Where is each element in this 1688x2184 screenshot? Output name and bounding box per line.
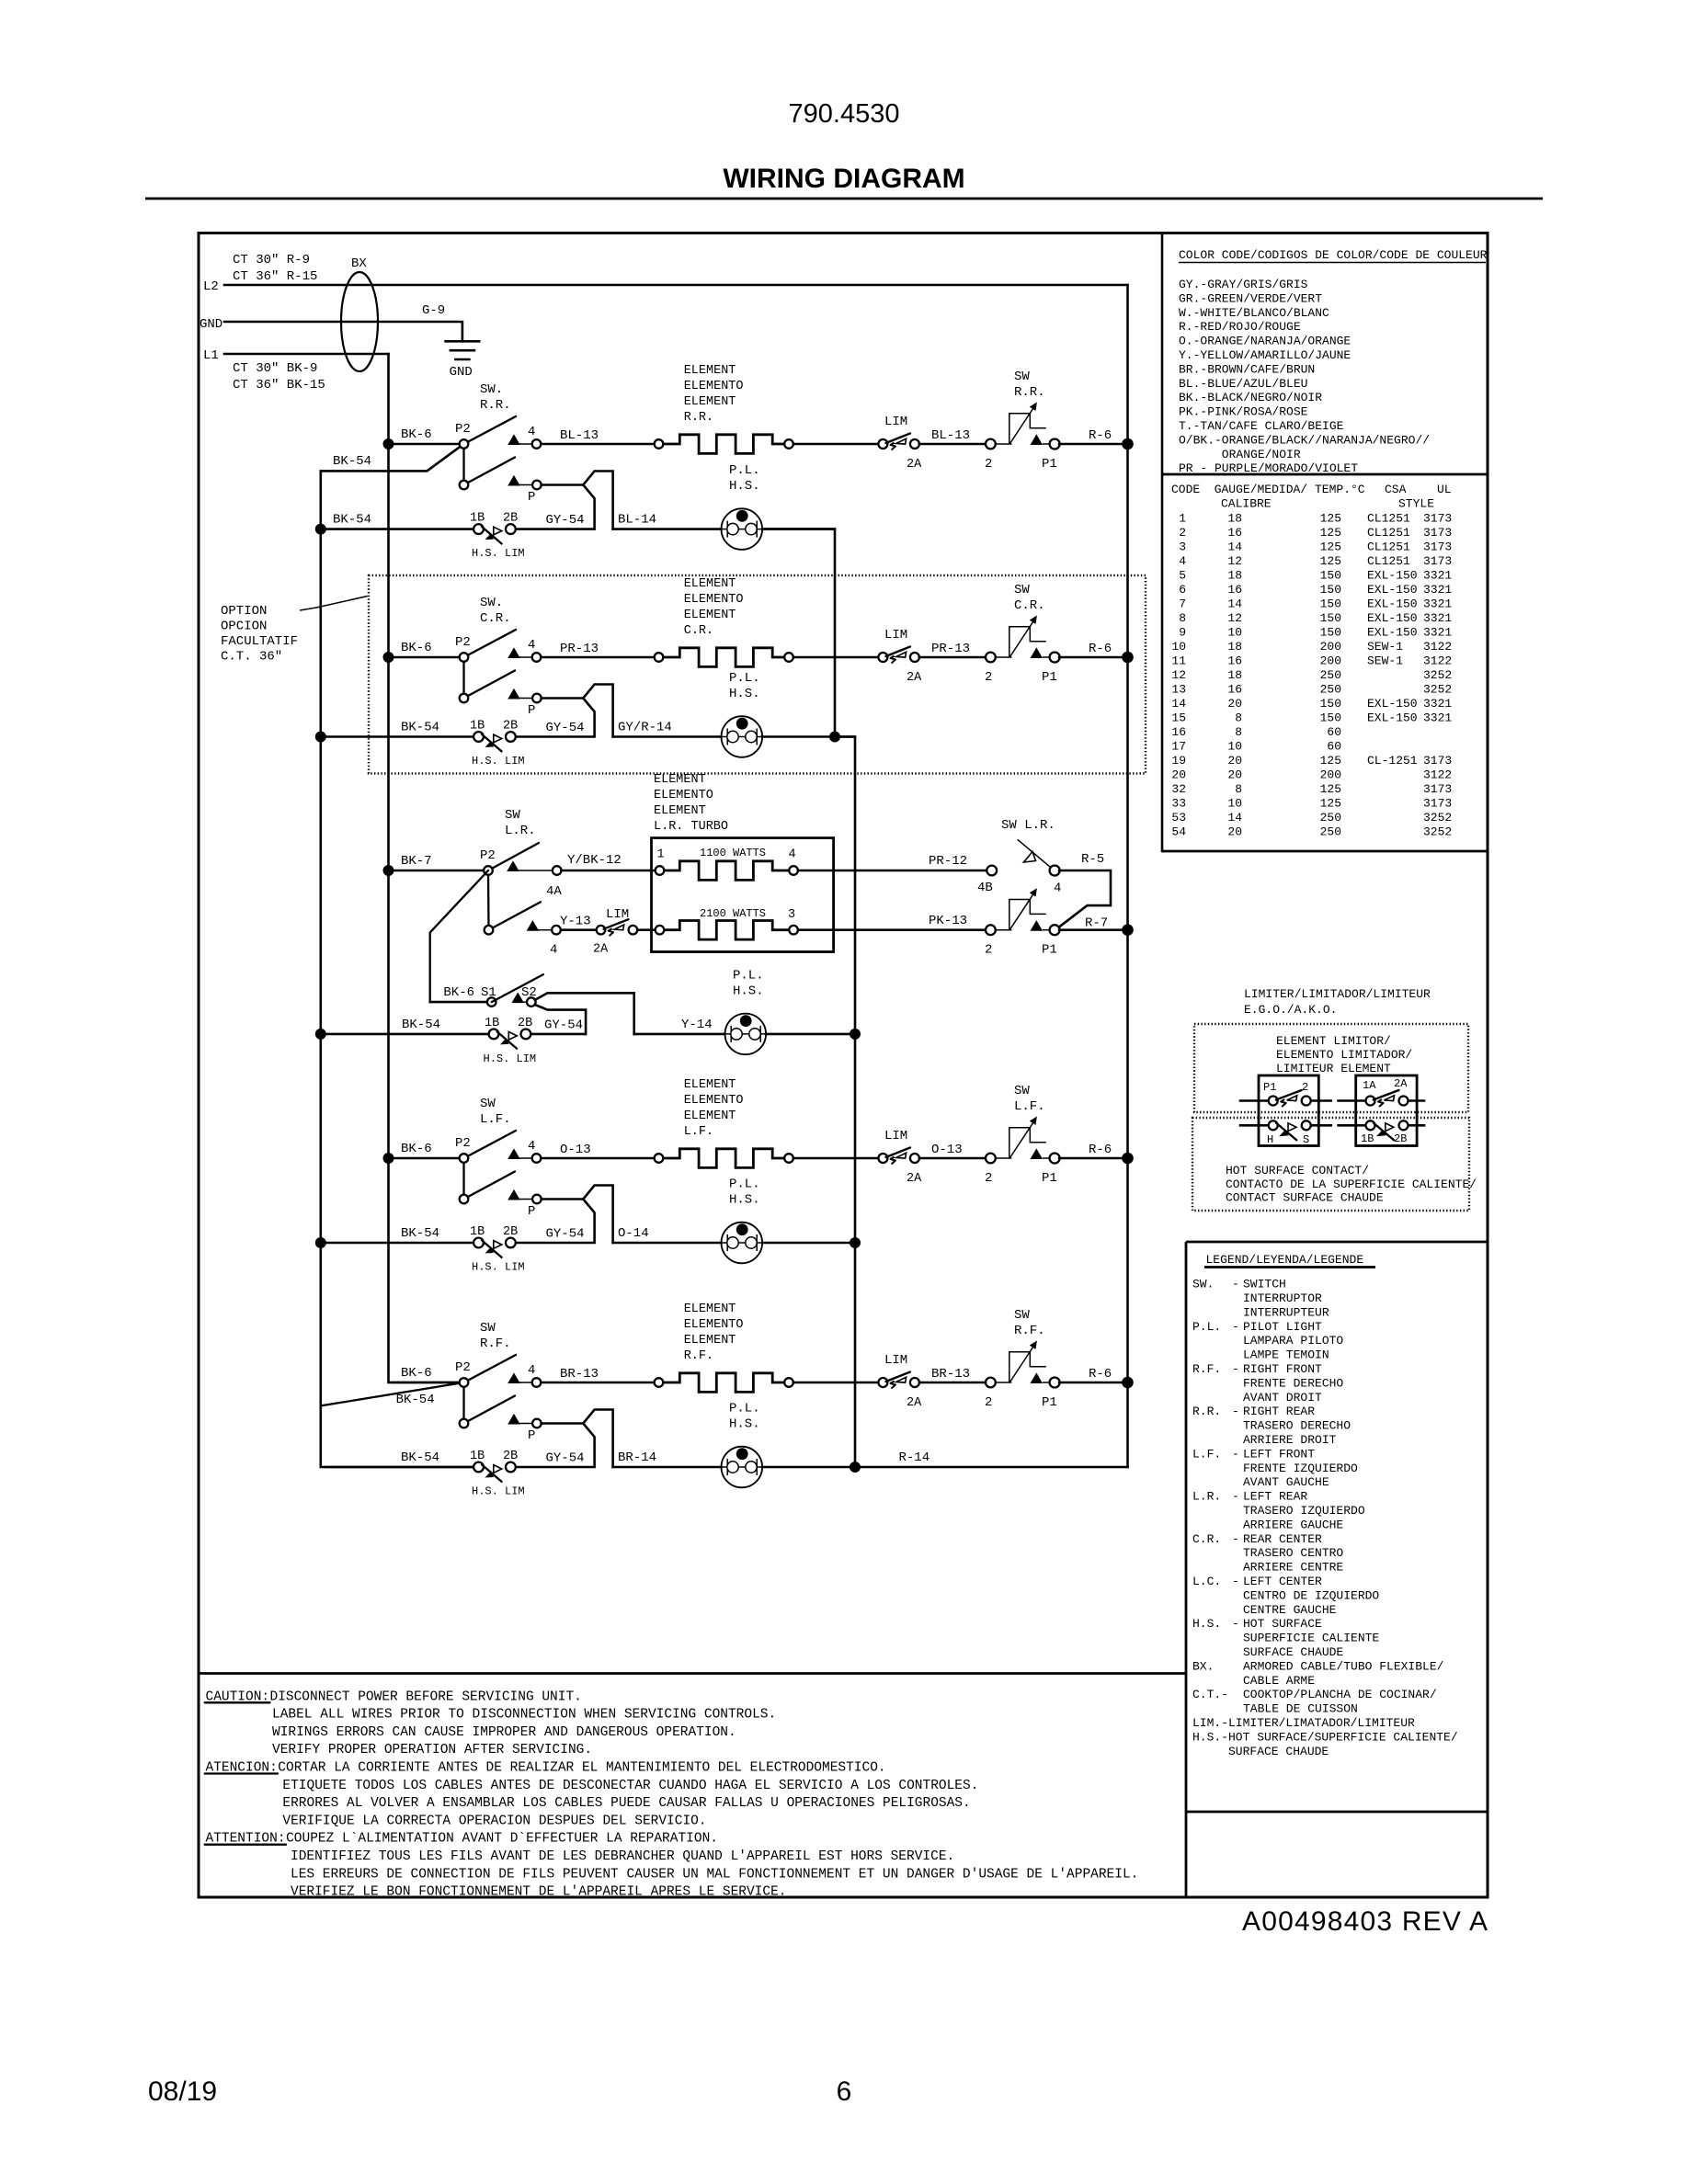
svg-text:2B: 2B bbox=[518, 1017, 532, 1030]
svg-text:CABLE ARME: CABLE ARME bbox=[1243, 1674, 1315, 1688]
svg-text:H.S. LIM: H.S. LIM bbox=[472, 755, 525, 768]
svg-text:20: 20 bbox=[1227, 825, 1242, 839]
wire pilot return L.R. bbox=[766, 1033, 855, 1036]
svg-text:125: 125 bbox=[1320, 540, 1341, 554]
svg-text:P2: P2 bbox=[455, 635, 471, 650]
svg-text:14: 14 bbox=[1171, 697, 1186, 711]
node BK-54 junction R.R. bbox=[315, 524, 326, 535]
svg-text:150: 150 bbox=[1320, 697, 1341, 711]
svg-text:3122: 3122 bbox=[1423, 654, 1452, 668]
wire BL-13 bbox=[919, 443, 987, 446]
svg-text:Y.-YELLOW/AMARILLO/JAUNE: Y.-YELLOW/AMARILLO/JAUNE bbox=[1179, 348, 1351, 362]
svg-text:4: 4 bbox=[528, 638, 535, 653]
svg-text:ARMORED CABLE/TUBO FLEXIBLE/: ARMORED CABLE/TUBO FLEXIBLE/ bbox=[1243, 1659, 1444, 1673]
svg-text:17: 17 bbox=[1171, 740, 1186, 754]
svg-text:H.S.: H.S. bbox=[1192, 1617, 1221, 1631]
pilot light P.L. H.S. C.R. bbox=[722, 716, 763, 757]
svg-text:O/BK.-ORANGE/BLACK//NARANJA/NE: O/BK.-ORANGE/BLACK//NARANJA/NEGRO// bbox=[1179, 433, 1430, 447]
svg-text:CALIBRE: CALIBRE bbox=[1221, 497, 1272, 511]
node pilot return L.R. bbox=[850, 1029, 861, 1040]
svg-text:PR - PURPLE/MORADO/VIOLET: PR - PURPLE/MORADO/VIOLET bbox=[1179, 461, 1358, 475]
svg-text:LEGEND/LEYENDA/LEGENDE: LEGEND/LEYENDA/LEGENDE bbox=[1206, 1253, 1364, 1267]
svg-text:ELEMENTO: ELEMENTO bbox=[684, 1094, 744, 1108]
svg-text:2100 WATTS: 2100 WATTS bbox=[700, 907, 766, 920]
svg-text:2: 2 bbox=[1179, 526, 1186, 540]
limiter LIM L.R. bbox=[597, 926, 606, 935]
svg-text:PK-13: PK-13 bbox=[929, 914, 967, 928]
svg-text:ELEMENT: ELEMENT bbox=[654, 773, 706, 787]
svg-text:ARRIERE CENTRE: ARRIERE CENTRE bbox=[1243, 1561, 1343, 1575]
svg-text:CL1251: CL1251 bbox=[1367, 526, 1410, 540]
svg-text:3173: 3173 bbox=[1423, 754, 1452, 768]
svg-text:GND: GND bbox=[450, 365, 473, 380]
svg-text:SWITCH: SWITCH bbox=[1243, 1278, 1286, 1291]
svg-text:R-6: R-6 bbox=[1089, 428, 1112, 443]
svg-text:P2: P2 bbox=[455, 1136, 471, 1151]
svg-text:3321: 3321 bbox=[1423, 697, 1452, 711]
svg-text:R-14: R-14 bbox=[899, 1450, 930, 1465]
terminal 2 of SW C.R. bbox=[986, 653, 996, 663]
terminal P1 of SW L.F. bbox=[1031, 1148, 1044, 1159]
svg-text:ELEMENT: ELEMENT bbox=[684, 609, 736, 622]
node BK-6 junction R.R. bbox=[383, 438, 394, 449]
svg-text:EXL-150: EXL-150 bbox=[1367, 611, 1418, 625]
svg-text:SW.: SW. bbox=[1192, 1278, 1214, 1291]
svg-text:8: 8 bbox=[1235, 711, 1242, 725]
svg-text:LIM.-LIMITER/LIMATADOR/LIMITEU: LIM.-LIMITER/LIMATADOR/LIMITEUR bbox=[1192, 1716, 1415, 1730]
svg-text:LIM: LIM bbox=[884, 1129, 907, 1143]
svg-text:TRASERO CENTRO: TRASERO CENTRO bbox=[1243, 1546, 1343, 1560]
svg-text:P1: P1 bbox=[1042, 1171, 1057, 1186]
svg-text:R.R.: R.R. bbox=[480, 398, 511, 413]
node pilot return R.F. bbox=[850, 1462, 861, 1473]
svg-text:CT 30" BK-9: CT 30" BK-9 bbox=[233, 361, 317, 376]
terminal P1 of SW L.R. bbox=[1031, 920, 1044, 931]
wire BK-54 to row R.F. switch bbox=[321, 1382, 464, 1405]
svg-text:ARRIERE DROIT: ARRIERE DROIT bbox=[1243, 1433, 1337, 1447]
svg-text:RIGHT FRONT: RIGHT FRONT bbox=[1243, 1362, 1322, 1376]
svg-text:2: 2 bbox=[985, 1171, 992, 1186]
wire pilot light return bbox=[762, 1466, 1127, 1469]
dashed box hot surface contact bbox=[1192, 1118, 1469, 1211]
svg-text:HOT SURFACE CONTACT/: HOT SURFACE CONTACT/ bbox=[1226, 1164, 1369, 1177]
terminal 4A of SW L.R. bbox=[507, 860, 519, 871]
svg-text:4: 4 bbox=[528, 1363, 535, 1378]
wire GND G-9 bbox=[224, 322, 462, 341]
svg-text:10: 10 bbox=[1227, 740, 1242, 754]
element R.R. (resistor) bbox=[655, 439, 664, 449]
svg-text:REAR CENTER: REAR CENTER bbox=[1243, 1532, 1322, 1546]
svg-text:C.R.: C.R. bbox=[480, 611, 511, 626]
wire O-13 bbox=[919, 1157, 987, 1160]
svg-text:BL.-BLUE/AZUL/BLEU: BL.-BLUE/AZUL/BLEU bbox=[1179, 377, 1307, 391]
wire pilot light return bbox=[762, 735, 855, 738]
svg-text:3321: 3321 bbox=[1423, 569, 1452, 583]
armored cable BX (ellipse) bbox=[341, 272, 378, 371]
wire L1 bbox=[224, 353, 389, 356]
wire element R.F. to LIM bbox=[793, 1382, 879, 1384]
svg-text:SURFACE CHAUDE: SURFACE CHAUDE bbox=[1243, 1645, 1343, 1659]
svg-text:CT 36" BK-15: CT 36" BK-15 bbox=[233, 378, 325, 392]
wire PK-13 bbox=[798, 928, 987, 931]
wire R-6 bbox=[1059, 1157, 1122, 1160]
terminal P1 of SW R.F. bbox=[1031, 1372, 1044, 1383]
svg-text:ERRORES AL VOLVER A ENSAMBLAR: ERRORES AL VOLVER A ENSAMBLAR LOS CABLES… bbox=[282, 1796, 970, 1811]
svg-text:GY-54: GY-54 bbox=[546, 1227, 585, 1242]
svg-text:BL-13: BL-13 bbox=[931, 428, 970, 443]
svg-text:GR.-GREEN/VERDE/VERT: GR.-GREEN/VERDE/VERT bbox=[1179, 291, 1322, 305]
svg-text:18: 18 bbox=[1227, 569, 1242, 583]
svg-text:18: 18 bbox=[1227, 640, 1242, 654]
svg-text:3: 3 bbox=[788, 908, 795, 922]
svg-text:DISCONNECT POWER BEFORE SERVIC: DISCONNECT POWER BEFORE SERVICING UNIT. bbox=[270, 1689, 582, 1704]
svg-text:250: 250 bbox=[1320, 683, 1341, 697]
svg-text:8: 8 bbox=[1179, 611, 1186, 625]
limiter LIM R.R. bbox=[878, 439, 887, 449]
svg-text:4: 4 bbox=[528, 1139, 535, 1154]
svg-text:LIM: LIM bbox=[884, 1353, 907, 1368]
wire BK-54 bbox=[325, 735, 474, 738]
svg-text:H: H bbox=[1267, 1133, 1273, 1146]
wire element L.F. to LIM bbox=[793, 1157, 879, 1160]
node BK-6 junction L.F. bbox=[383, 1153, 394, 1164]
svg-text:250: 250 bbox=[1320, 825, 1341, 839]
svg-text:10: 10 bbox=[1171, 640, 1186, 654]
svg-text:250: 250 bbox=[1320, 811, 1341, 825]
svg-text:P.L.: P.L. bbox=[729, 671, 760, 686]
svg-text:RIGHT REAR: RIGHT REAR bbox=[1243, 1405, 1315, 1418]
wire element R.R. to LIM bbox=[793, 443, 879, 446]
terminal 2 of SW R.F. bbox=[986, 1378, 996, 1388]
svg-text:LES ERREURS DE CONNECTION DE F: LES ERREURS DE CONNECTION DE FILS PEUVEN… bbox=[291, 1867, 1138, 1882]
svg-text:PR-13: PR-13 bbox=[560, 642, 599, 656]
wire BK-54 bbox=[325, 528, 474, 530]
svg-text:R.R.: R.R. bbox=[1192, 1405, 1221, 1418]
svg-text:BL-14: BL-14 bbox=[618, 513, 656, 528]
svg-text:CENTRO DE IZQUIERDO: CENTRO DE IZQUIERDO bbox=[1243, 1588, 1379, 1602]
svg-text:BR.-BROWN/CAFE/BRUN: BR.-BROWN/CAFE/BRUN bbox=[1179, 362, 1315, 376]
svg-text:200: 200 bbox=[1320, 654, 1341, 668]
svg-text:SW: SW bbox=[480, 1321, 496, 1336]
svg-text:1B: 1B bbox=[470, 1450, 485, 1463]
svg-text:-: - bbox=[1232, 1490, 1239, 1504]
svg-text:SW: SW bbox=[1014, 1084, 1030, 1098]
wire BK-54 row L.R. bbox=[325, 1033, 489, 1036]
svg-text:R-7: R-7 bbox=[1085, 916, 1108, 931]
svg-text:ELEMENTO: ELEMENTO bbox=[684, 593, 744, 607]
thermal switch H.S. LIM R.R. (1B/2B) bbox=[473, 524, 484, 534]
svg-text:2A: 2A bbox=[907, 671, 922, 685]
svg-text:CONTACTO DE LA SUPERFICIE CALI: CONTACTO DE LA SUPERFICIE CALIENTE/ bbox=[1226, 1177, 1477, 1191]
svg-text:BK-6: BK-6 bbox=[401, 1142, 432, 1156]
element box L.R. turbo bbox=[652, 838, 834, 952]
dashed box element limitor bbox=[1194, 1024, 1468, 1112]
svg-text:3173: 3173 bbox=[1423, 526, 1452, 540]
svg-text:ELEMENTO: ELEMENTO bbox=[684, 1318, 744, 1332]
svg-text:4: 4 bbox=[550, 943, 557, 958]
svg-text:8: 8 bbox=[1235, 725, 1242, 739]
wire PR-12 bbox=[798, 870, 987, 872]
svg-text:C.R.: C.R. bbox=[1192, 1532, 1221, 1546]
ground symbol GND bbox=[446, 340, 480, 343]
svg-text:CONTACT SURFACE CHAUDE: CONTACT SURFACE CHAUDE bbox=[1226, 1191, 1384, 1205]
svg-text:150: 150 bbox=[1320, 569, 1341, 583]
node BK-54 junction L.R. bbox=[315, 1029, 326, 1040]
svg-text:EXL-150: EXL-150 bbox=[1367, 597, 1418, 611]
svg-text:BK-6: BK-6 bbox=[401, 641, 432, 655]
svg-text:P1: P1 bbox=[1042, 943, 1057, 958]
svg-text:2B: 2B bbox=[503, 512, 518, 526]
svg-text:L.F.: L.F. bbox=[684, 1125, 713, 1139]
svg-text:150: 150 bbox=[1320, 611, 1341, 625]
svg-text:R.F.: R.F. bbox=[1014, 1324, 1045, 1338]
svg-text:UL: UL bbox=[1437, 483, 1452, 496]
svg-text:10: 10 bbox=[1227, 626, 1242, 640]
svg-text:3173: 3173 bbox=[1423, 512, 1452, 526]
svg-text:BK-54: BK-54 bbox=[333, 454, 371, 469]
wire pilot light return bbox=[762, 1242, 855, 1245]
pilot light P.L. H.S. L.R. bbox=[725, 1014, 767, 1055]
svg-text:BK-54: BK-54 bbox=[396, 1393, 435, 1407]
node R-6 junction R.R. bbox=[1122, 438, 1134, 450]
svg-text:LEFT CENTER: LEFT CENTER bbox=[1243, 1575, 1322, 1588]
svg-text:SEW-1: SEW-1 bbox=[1367, 654, 1403, 668]
limiter LIM L.F. bbox=[878, 1154, 887, 1163]
svg-text:H.S. LIM: H.S. LIM bbox=[472, 547, 525, 560]
limiter contacts H/S bbox=[1240, 1124, 1269, 1127]
svg-text:CODE: CODE bbox=[1171, 483, 1200, 496]
svg-text:60: 60 bbox=[1327, 725, 1341, 739]
svg-text:STYLE: STYLE bbox=[1398, 497, 1434, 511]
svg-text:BR-14: BR-14 bbox=[618, 1450, 656, 1465]
svg-text:ELEMENT: ELEMENT bbox=[684, 364, 736, 378]
svg-text:GY-54: GY-54 bbox=[546, 513, 585, 528]
svg-text:ORANGE/NOIR: ORANGE/NOIR bbox=[1179, 448, 1301, 461]
svg-text:20: 20 bbox=[1171, 768, 1186, 782]
svg-text:O-13: O-13 bbox=[931, 1143, 963, 1157]
svg-text:BK-54: BK-54 bbox=[401, 721, 439, 735]
svg-text:20: 20 bbox=[1227, 768, 1242, 782]
terminal P1 of SW C.R. bbox=[1031, 647, 1044, 658]
svg-text:5: 5 bbox=[1179, 569, 1186, 583]
svg-text:20: 20 bbox=[1227, 697, 1242, 711]
wire BK-6 row L.F. bbox=[393, 1157, 460, 1160]
svg-text:125: 125 bbox=[1320, 754, 1341, 768]
svg-text:LIMITEUR ELEMENT: LIMITEUR ELEMENT bbox=[1276, 1062, 1391, 1075]
svg-text:W.-WHITE/BLANCO/BLANC: W.-WHITE/BLANCO/BLANC bbox=[1179, 306, 1329, 320]
divider gauge table bottom bbox=[1162, 850, 1488, 853]
svg-text:BK-54: BK-54 bbox=[333, 513, 371, 528]
wire Y/BK-12 bbox=[562, 870, 656, 872]
svg-text:ELEMENT: ELEMENT bbox=[684, 1302, 736, 1316]
svg-text:P2: P2 bbox=[455, 422, 471, 437]
svg-text:150: 150 bbox=[1320, 597, 1341, 611]
svg-text:O-14: O-14 bbox=[618, 1226, 649, 1241]
svg-text:53: 53 bbox=[1171, 811, 1186, 825]
svg-text:CT 30" R-9: CT 30" R-9 bbox=[233, 253, 310, 267]
svg-text:ETIQUETE TODOS LOS CABLES ANTE: ETIQUETE TODOS LOS CABLES ANTES DE DESCO… bbox=[282, 1779, 978, 1793]
node BK-7 junction L.R. bbox=[383, 865, 394, 876]
limiter contact box right bbox=[1356, 1075, 1417, 1146]
svg-text:SW: SW bbox=[1014, 370, 1030, 384]
node R-6 junction R.F. bbox=[1122, 1377, 1134, 1389]
svg-text:-: - bbox=[1232, 1532, 1239, 1546]
svg-text:COUPEZ L`ALIMENTATION AVANT D`: COUPEZ L`ALIMENTATION AVANT D`EFFECTUER … bbox=[286, 1832, 718, 1847]
svg-text:08/19: 08/19 bbox=[148, 2076, 217, 2107]
thermal switch H.S. LIM R.F. (1B/2B) bbox=[473, 1462, 484, 1473]
node pilot return L.F. bbox=[850, 1237, 861, 1248]
svg-text:3321: 3321 bbox=[1423, 611, 1452, 625]
svg-text:ELEMENT: ELEMENT bbox=[684, 1109, 736, 1123]
svg-text:1A: 1A bbox=[1363, 1079, 1376, 1092]
svg-text:4: 4 bbox=[1054, 882, 1061, 896]
svg-text:P.L.: P.L. bbox=[729, 1402, 760, 1416]
thermal switch H.S. LIM C.R. (1B/2B) bbox=[473, 732, 484, 742]
svg-text:4B: 4B bbox=[977, 881, 993, 895]
limiter contacts 1B/2B bbox=[1339, 1124, 1366, 1127]
node BK-54 junction L.F. bbox=[315, 1237, 326, 1248]
svg-text:3252: 3252 bbox=[1423, 811, 1452, 825]
svg-text:R.R.: R.R. bbox=[684, 411, 713, 425]
wire BK-6 row R.F. bbox=[393, 1382, 460, 1384]
svg-text:3122: 3122 bbox=[1423, 640, 1452, 654]
svg-text:4: 4 bbox=[528, 425, 535, 439]
svg-text:3173: 3173 bbox=[1423, 540, 1452, 554]
wire Y-14 bbox=[634, 1033, 725, 1036]
svg-text:L.R.: L.R. bbox=[505, 824, 536, 838]
svg-text:13: 13 bbox=[1171, 683, 1186, 697]
terminal 4 of SW R.R. bbox=[508, 434, 520, 445]
svg-text:1B: 1B bbox=[485, 1017, 499, 1030]
svg-text:EXL-150: EXL-150 bbox=[1367, 697, 1418, 711]
svg-text:54: 54 bbox=[1171, 825, 1186, 839]
svg-text:GND: GND bbox=[200, 317, 222, 332]
limiter contacts P1/2 bbox=[1240, 1099, 1269, 1102]
svg-text:12: 12 bbox=[1227, 611, 1242, 625]
svg-text:LIMITER/LIMITADOR/LIMITEUR: LIMITER/LIMITADOR/LIMITEUR bbox=[1244, 987, 1431, 1001]
svg-text:INTERRUPTOR: INTERRUPTOR bbox=[1243, 1291, 1322, 1305]
svg-text:BK-54: BK-54 bbox=[401, 1226, 439, 1241]
terminal 2 of SW L.R. (lower) bbox=[986, 925, 996, 935]
svg-text:TEMP.°C: TEMP.°C bbox=[1315, 483, 1365, 496]
svg-text:CORTAR LA CORRIENTE ANTES DE R: CORTAR LA CORRIENTE ANTES DE REALIZAR EL… bbox=[278, 1761, 885, 1776]
svg-text:FRENTE DERECHO: FRENTE DERECHO bbox=[1243, 1376, 1343, 1390]
svg-text:SUPERFICIE CALIENTE: SUPERFICIE CALIENTE bbox=[1243, 1632, 1379, 1645]
svg-text:-: - bbox=[1232, 1447, 1239, 1461]
svg-text:H.S.: H.S. bbox=[729, 1193, 760, 1208]
wire PR-13 bbox=[919, 656, 987, 659]
pilot light P.L. H.S. R.F. bbox=[722, 1447, 763, 1488]
svg-text:T.-TAN/CAFE CLARO/BEIGE: T.-TAN/CAFE CLARO/BEIGE bbox=[1179, 419, 1344, 433]
svg-text:1100 WATTS: 1100 WATTS bbox=[700, 847, 766, 859]
svg-text:Y-13: Y-13 bbox=[560, 915, 591, 929]
svg-text:BR-13: BR-13 bbox=[560, 1367, 599, 1382]
svg-text:H.S. LIM: H.S. LIM bbox=[472, 1261, 525, 1274]
terminal 4 (lower) of SW L.R. bbox=[527, 920, 540, 931]
thermal switch H.S. LIM L.R. (1B/2B) bbox=[489, 1029, 499, 1040]
wire GY-54 bbox=[515, 485, 594, 529]
svg-text:L.R.: L.R. bbox=[1192, 1490, 1221, 1504]
svg-text:ELEMENT: ELEMENT bbox=[684, 395, 736, 409]
svg-text:15: 15 bbox=[1171, 711, 1186, 725]
svg-text:ELEMENTO: ELEMENTO bbox=[684, 380, 744, 393]
svg-text:GY/R-14: GY/R-14 bbox=[618, 721, 672, 735]
svg-text:16: 16 bbox=[1227, 526, 1242, 540]
svg-text:6: 6 bbox=[1179, 583, 1186, 597]
svg-text:150: 150 bbox=[1320, 583, 1341, 597]
svg-text:4: 4 bbox=[1179, 554, 1186, 568]
svg-text:1: 1 bbox=[657, 848, 665, 862]
svg-text:LIM: LIM bbox=[884, 415, 907, 429]
svg-text:WIRING DIAGRAM: WIRING DIAGRAM bbox=[723, 164, 964, 194]
node pilot return R.R./C.R. bbox=[829, 732, 840, 743]
svg-text:P1: P1 bbox=[1263, 1081, 1276, 1094]
caution divider bbox=[199, 1672, 1186, 1675]
svg-text:BK-6: BK-6 bbox=[443, 985, 474, 1000]
svg-text:-: - bbox=[1232, 1405, 1239, 1418]
svg-text:E.G.O./A.K.O.: E.G.O./A.K.O. bbox=[1244, 1003, 1337, 1017]
svg-text:G-9: G-9 bbox=[422, 303, 445, 318]
svg-text:S2: S2 bbox=[521, 985, 537, 1000]
wire BL-14 bbox=[613, 528, 722, 530]
wire P to pilot light bbox=[542, 472, 613, 529]
terminal P1 of SW R.R. bbox=[1031, 434, 1044, 445]
svg-text:ARRIERE GAUCHE: ARRIERE GAUCHE bbox=[1243, 1518, 1343, 1531]
svg-text:SW: SW bbox=[1014, 583, 1030, 597]
svg-text:R.R.: R.R. bbox=[1014, 385, 1045, 400]
wire GY-54 bbox=[515, 699, 594, 737]
wire pilot light return bbox=[762, 528, 835, 530]
svg-text:ELEMENT: ELEMENT bbox=[654, 804, 706, 818]
svg-text:P: P bbox=[528, 490, 535, 505]
svg-text:S: S bbox=[1303, 1133, 1309, 1146]
svg-text:C.R.: C.R. bbox=[1014, 598, 1045, 613]
svg-text:3122: 3122 bbox=[1423, 768, 1452, 782]
svg-text:200: 200 bbox=[1320, 768, 1341, 782]
svg-text:BR-13: BR-13 bbox=[931, 1367, 970, 1382]
svg-text:COLOR CODE/CODIGOS DE COLOR/CO: COLOR CODE/CODIGOS DE COLOR/CODE DE COUL… bbox=[1179, 248, 1488, 262]
svg-text:AVANT GAUCHE: AVANT GAUCHE bbox=[1243, 1475, 1329, 1489]
svg-text:1B: 1B bbox=[470, 720, 485, 734]
terminal 4 of SW L.F. bbox=[508, 1148, 520, 1159]
svg-text:R.F.: R.F. bbox=[480, 1337, 511, 1351]
svg-text:P.L.: P.L. bbox=[733, 968, 764, 983]
svg-text:LEFT FRONT: LEFT FRONT bbox=[1243, 1447, 1315, 1461]
svg-text:16: 16 bbox=[1227, 683, 1242, 697]
svg-text:LABEL ALL WIRES PRIOR TO DISCO: LABEL ALL WIRES PRIOR TO DISCONNECTION W… bbox=[272, 1708, 776, 1723]
element L.R. 2100W (resistor) bbox=[656, 926, 665, 935]
svg-text:11: 11 bbox=[1171, 654, 1186, 668]
svg-text:INTERRUPTEUR: INTERRUPTEUR bbox=[1243, 1305, 1329, 1319]
svg-text:EXL-150: EXL-150 bbox=[1367, 569, 1418, 583]
bus BK-54 vertical bbox=[321, 444, 474, 1467]
svg-text:2: 2 bbox=[985, 943, 992, 958]
svg-text:150: 150 bbox=[1320, 711, 1341, 725]
svg-text:3: 3 bbox=[1179, 540, 1186, 554]
wire O-14 bbox=[613, 1242, 722, 1245]
svg-text:14: 14 bbox=[1227, 540, 1242, 554]
horizontal rule bbox=[145, 198, 1543, 200]
svg-text:3321: 3321 bbox=[1423, 583, 1452, 597]
svg-text:-: - bbox=[1232, 1575, 1239, 1588]
svg-text:SW.: SW. bbox=[480, 382, 503, 397]
wire P to pilot light bbox=[542, 1186, 613, 1244]
svg-text:2A: 2A bbox=[907, 1172, 922, 1186]
svg-text:BX: BX bbox=[351, 256, 367, 271]
svg-text:GY.-GRAY/GRIS/GRIS: GY.-GRAY/GRIS/GRIS bbox=[1179, 278, 1308, 291]
svg-text:L2: L2 bbox=[203, 279, 219, 294]
terminal 2 of SW R.R. bbox=[986, 439, 996, 449]
